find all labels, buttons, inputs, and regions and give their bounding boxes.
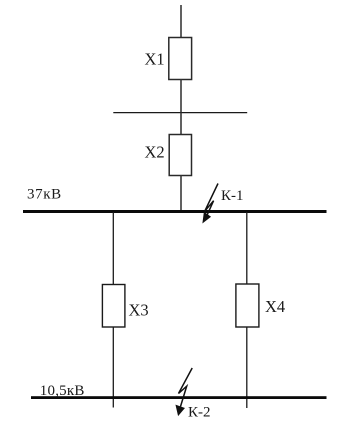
svg-text:К-2: К-2 (188, 405, 211, 421)
bus 37kV (23, 210, 327, 213)
wire: X3 to below 10.5kV bus (112, 327, 114, 408)
bus 10.5kV (31, 396, 327, 399)
wire: X1 to tap line (180, 80, 182, 113)
svg-text:X4: X4 (265, 297, 285, 316)
reactor X3 (102, 285, 125, 328)
wire: X2 to 37kV bus (180, 176, 182, 212)
wire: tap line to X2 (180, 113, 182, 135)
wire: supply lead into X1 (180, 5, 182, 38)
tap bar (horizontal line) (113, 112, 247, 114)
wire: X4 to below 10.5kV bus (246, 327, 248, 408)
svg-text:X2: X2 (145, 143, 165, 162)
reactor X2 (169, 135, 191, 176)
wire: 37kV bus to X3 (112, 212, 114, 285)
reactor X4 (236, 284, 259, 327)
fault K-1 lightning arrow (203, 184, 218, 223)
svg-text:X3: X3 (129, 300, 149, 319)
svg-text:X1: X1 (145, 49, 165, 68)
fault K-2 lightning arrow (176, 368, 192, 415)
svg-text:К-1: К-1 (221, 188, 244, 204)
reactor X1 (169, 38, 192, 80)
wire: 37kV bus to X4 (246, 212, 248, 285)
svg-text:37кВ: 37кВ (27, 187, 62, 203)
